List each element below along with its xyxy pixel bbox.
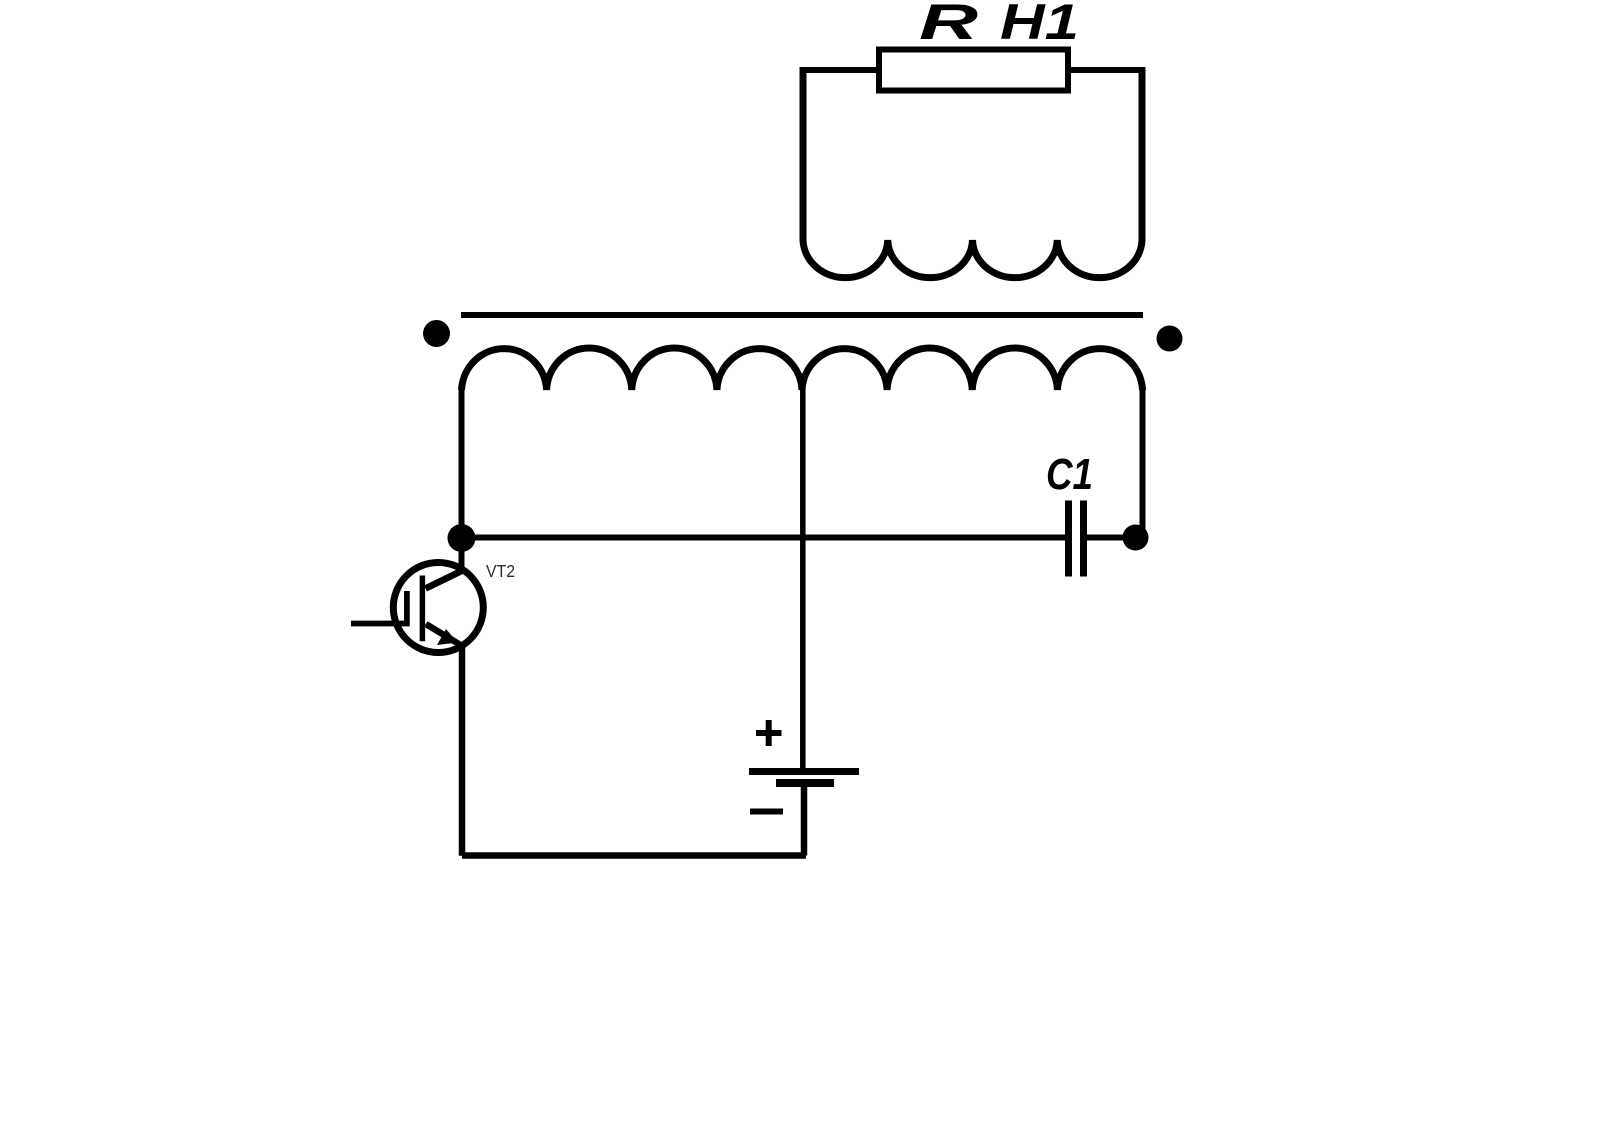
svg-text:VT2: VT2 bbox=[486, 561, 515, 581]
transistor VT2 gate lead bbox=[351, 591, 407, 624]
wire battery negative lead bbox=[801, 785, 808, 856]
phasing dot left bbox=[423, 320, 450, 347]
wire L1 left end down to collector node bbox=[459, 389, 465, 571]
wire RH1 right lead bbox=[1068, 67, 1142, 73]
wire emitter down bbox=[459, 647, 466, 856]
battery positive long plate bbox=[749, 768, 859, 775]
transistor VT2 emitter arrow bbox=[437, 629, 458, 645]
transformer core bbox=[461, 312, 1143, 318]
junction dot collector node bbox=[448, 524, 476, 552]
capacitor C1 left plate bbox=[1065, 501, 1072, 577]
wire RH1 left lead bbox=[803, 67, 879, 73]
resistor RH1 bbox=[879, 50, 1068, 91]
wire center tap down to battery bbox=[800, 389, 806, 770]
transistor VT2 base bar bbox=[420, 576, 426, 642]
junction dot C1 right node bbox=[1123, 525, 1149, 551]
transistor VT2 emitter stroke bbox=[426, 624, 461, 645]
svg-text:H1: H1 bbox=[1000, 0, 1079, 50]
phasing dot right bbox=[1157, 326, 1183, 352]
wire collector node to capacitor bbox=[462, 535, 1066, 541]
svg-text:R: R bbox=[919, 0, 978, 50]
battery minus sign bbox=[750, 809, 783, 815]
wire L1 right end down to C1 node bbox=[1140, 389, 1146, 539]
battery negative short plate bbox=[776, 779, 834, 787]
inductor L1 primary winding bbox=[462, 348, 1143, 390]
capacitor C1 right plate bbox=[1080, 501, 1087, 577]
wire capacitor to right node bbox=[1087, 535, 1136, 541]
battery plus sign bbox=[756, 720, 782, 746]
transistor VT2 circle bbox=[393, 563, 483, 653]
transistor VT2 collector stroke bbox=[426, 570, 465, 589]
inductor L2 secondary winding bbox=[803, 67, 1142, 278]
wire bottom return bbox=[462, 852, 806, 859]
svg-text:C1: C1 bbox=[1046, 450, 1093, 499]
